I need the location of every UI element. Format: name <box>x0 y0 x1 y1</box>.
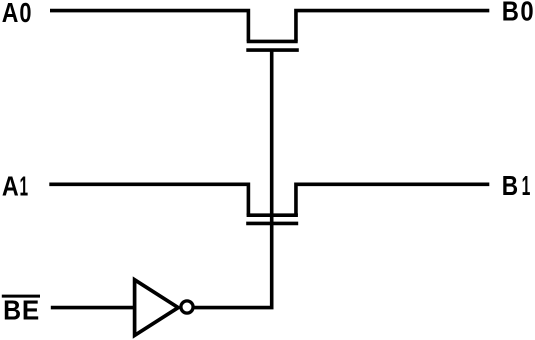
wire B1 to Q2 drain <box>296 184 489 215</box>
svg-text:0: 0 <box>520 0 533 26</box>
svg-text:A: A <box>2 0 19 28</box>
port label BE (active-low) <box>2 295 40 326</box>
wire B0 to Q1 drain <box>296 11 489 42</box>
svg-text:B: B <box>502 170 518 201</box>
port label A1 <box>2 171 28 202</box>
wire A1 to Q2 source <box>49 184 248 215</box>
svg-text:1: 1 <box>20 171 29 202</box>
port label B0 <box>502 0 534 26</box>
wire BE to inverter input <box>51 306 136 310</box>
port label B1 <box>502 170 531 201</box>
wire A0 to Q1 source <box>50 11 248 42</box>
svg-text:B: B <box>3 295 21 326</box>
inverter U1 <box>135 280 193 336</box>
port label A0 <box>2 0 32 28</box>
svg-text:A: A <box>2 171 19 202</box>
svg-text:B: B <box>502 0 519 26</box>
svg-text:0: 0 <box>19 0 31 28</box>
transistor Q2 (pass MOSFET) <box>246 215 298 223</box>
transistor Q1 (pass MOSFET) <box>246 41 298 50</box>
svg-text:E: E <box>22 295 39 326</box>
wire inverter output to transistor gates <box>194 50 271 308</box>
svg-text:1: 1 <box>522 170 531 201</box>
